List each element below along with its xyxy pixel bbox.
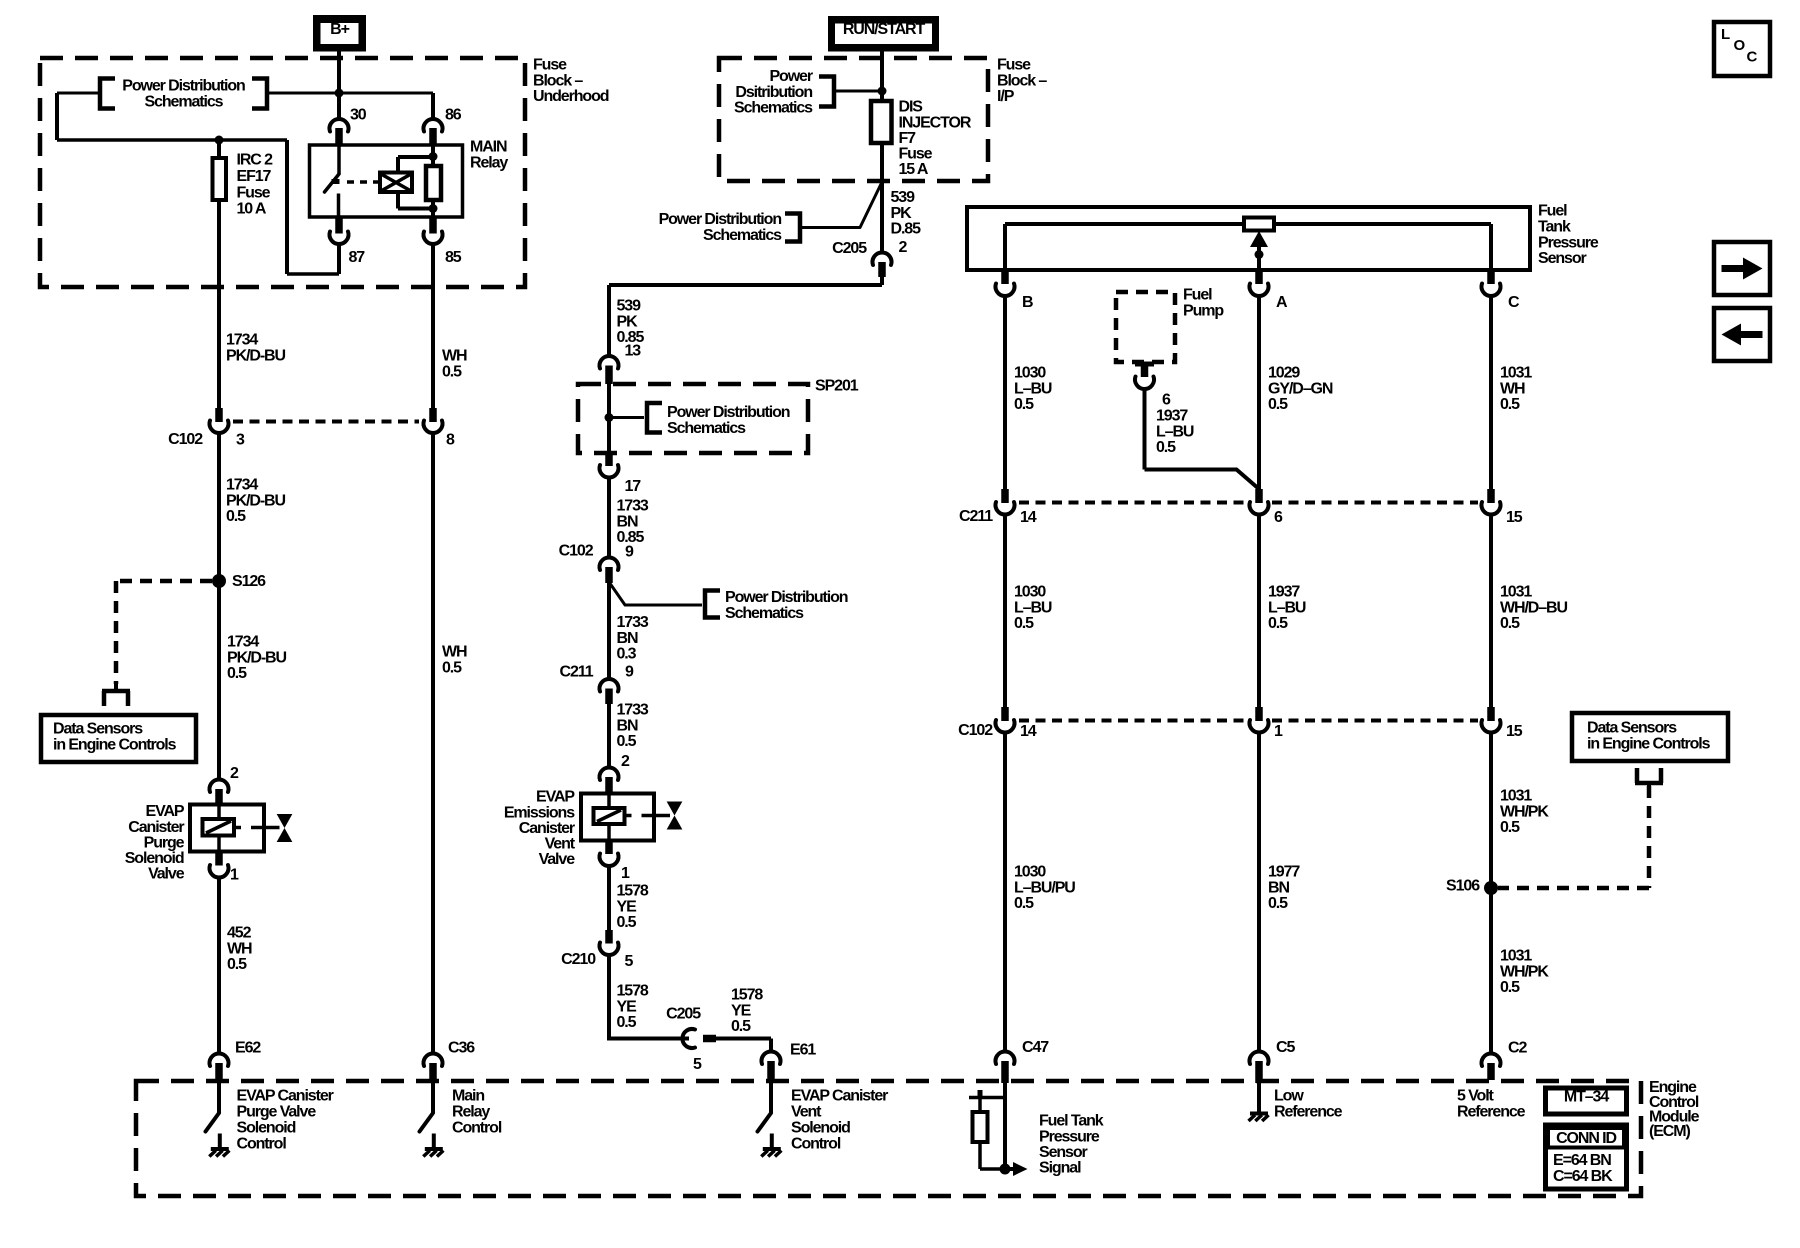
svg-text:1: 1 <box>621 865 630 882</box>
fuse DIS INJECTOR F7 15 A <box>871 101 892 143</box>
junction I/P feed <box>878 87 887 96</box>
reference Power Distribution Schematics (I/P lower) <box>659 184 881 244</box>
svg-text:Fuel: Fuel <box>1538 203 1567 220</box>
wire inside SP201 <box>607 384 611 452</box>
svg-text:Canister: Canister <box>519 820 575 837</box>
connector C2 <box>1482 1053 1501 1080</box>
svg-text:YE: YE <box>617 898 638 915</box>
svg-text:15 A: 15 A <box>899 161 929 178</box>
svg-text:Pressure: Pressure <box>1039 1128 1100 1145</box>
S126 link fork <box>114 682 118 691</box>
svg-text:Solenoid: Solenoid <box>791 1120 850 1137</box>
label 5 Volt Reference <box>1457 1088 1526 1121</box>
label WH 0.5 (main relay wire) <box>442 348 467 381</box>
svg-text:2: 2 <box>230 765 239 782</box>
label WH 0.5 (lower) <box>442 644 467 677</box>
svg-text:A: A <box>1276 294 1288 311</box>
label 1937 L-BU 0.5 (pump) <box>1156 408 1194 456</box>
svg-text:8: 8 <box>446 432 455 449</box>
svg-text:539: 539 <box>891 189 916 206</box>
svg-text:0.5: 0.5 <box>1014 895 1034 912</box>
relay coil <box>380 157 433 209</box>
junction signal node <box>1000 1164 1011 1175</box>
svg-text:10 A: 10 A <box>237 201 267 218</box>
svg-text:SP201: SP201 <box>815 378 859 395</box>
signal arrow <box>1005 1162 1028 1176</box>
C102 pin 3 connector <box>210 408 229 575</box>
vent valve pin 2 connector <box>600 767 619 793</box>
wire PDS left loop to fuse feed <box>57 93 287 140</box>
label 1030 L-BU/PU 0.5 (B lower) <box>1014 864 1075 912</box>
svg-text:Valve: Valve <box>539 851 576 868</box>
EVAP Canister Purge Solenoid Valve box <box>190 805 264 852</box>
valve pin 1 connector <box>210 852 229 1054</box>
svg-text:EVAP: EVAP <box>146 803 185 820</box>
purge valve coil <box>203 819 235 836</box>
connector C102 dashed row <box>233 420 419 424</box>
label EVAP Canister Purge Valve Solenoid Control <box>237 1088 334 1153</box>
svg-text:Schematics: Schematics <box>725 605 804 622</box>
C102 pin 1 connector <box>1250 707 1269 1053</box>
svg-text:2: 2 <box>899 239 908 256</box>
svg-text:Reference: Reference <box>1274 1104 1343 1121</box>
svg-text:5: 5 <box>693 1056 702 1073</box>
wire fuel pump to A leg <box>1145 470 1260 490</box>
svg-text:13: 13 <box>625 343 642 360</box>
svg-text:Fuse: Fuse <box>899 146 933 163</box>
label 1031 WH 0.5 (C upper) <box>1500 365 1532 413</box>
svg-text:Emissions: Emissions <box>504 804 575 821</box>
svg-text:1031: 1031 <box>1500 365 1532 382</box>
svg-text:E62: E62 <box>235 1040 261 1057</box>
svg-text:0.5: 0.5 <box>227 665 247 682</box>
svg-text:O: O <box>1734 37 1746 54</box>
ECM input resistor <box>973 1112 988 1142</box>
label 1734 PK/D-BU 0.5 (lower) <box>227 634 287 682</box>
svg-text:Fuse: Fuse <box>997 57 1031 74</box>
svg-text:WH: WH <box>227 940 252 957</box>
reference Power Distribution Schematics (below C102) <box>609 582 848 622</box>
svg-text:14: 14 <box>1020 509 1037 526</box>
svg-text:86: 86 <box>445 107 462 124</box>
svg-text:L–BU: L–BU <box>1156 423 1194 440</box>
svg-text:Fuel Tank: Fuel Tank <box>1039 1113 1104 1130</box>
fuel pump pin 6 connector <box>1135 364 1154 470</box>
svg-text:S106: S106 <box>1446 878 1480 895</box>
wire C205 to E61 <box>714 1039 771 1054</box>
svg-text:Power Distribution: Power Distribution <box>667 404 790 421</box>
sensor wiper arrow <box>1250 231 1268 270</box>
connector C102 (middle) <box>600 557 619 583</box>
svg-text:452: 452 <box>227 925 252 942</box>
purge valve link <box>234 826 280 830</box>
svg-text:C102: C102 <box>958 722 993 739</box>
svg-text:Block –: Block – <box>997 72 1047 89</box>
label 1578 YE 0.5 (right of C205) <box>731 987 763 1035</box>
svg-text:Fuel: Fuel <box>1183 287 1212 304</box>
svg-text:C205: C205 <box>666 1006 701 1023</box>
wire feed to relay pin 87 return <box>287 140 339 274</box>
svg-text:0.5: 0.5 <box>1014 396 1034 413</box>
svg-text:1: 1 <box>1274 723 1283 740</box>
svg-text:Signal: Signal <box>1039 1160 1081 1177</box>
svg-text:0.5: 0.5 <box>227 956 247 973</box>
svg-text:B: B <box>1022 294 1033 311</box>
svg-text:BN: BN <box>617 630 638 647</box>
svg-text:Control: Control <box>237 1136 287 1153</box>
svg-text:WH: WH <box>1500 380 1525 397</box>
svg-text:15: 15 <box>1506 509 1523 526</box>
label Low Reference <box>1274 1088 1343 1121</box>
connector C47 <box>996 1051 1015 1083</box>
svg-text:Control: Control <box>791 1136 841 1153</box>
pin 30 connector <box>330 93 349 145</box>
label 1031 WH/PK 0.5 (lower) <box>1500 948 1549 996</box>
vent valve symbol <box>668 802 682 815</box>
junction coil bottom <box>429 204 438 213</box>
svg-text:1733: 1733 <box>617 614 649 631</box>
wire C211 to vent valve <box>607 702 611 769</box>
svg-text:Data Sensors: Data Sensors <box>1587 720 1677 737</box>
fuse IRC 2 EF17 10 A <box>213 140 227 408</box>
svg-text:Underhood: Underhood <box>533 88 609 105</box>
svg-text:1937: 1937 <box>1156 408 1188 425</box>
svg-text:Valve: Valve <box>148 866 185 883</box>
connector C36 <box>424 1053 443 1083</box>
svg-text:0.5: 0.5 <box>617 914 637 931</box>
label Fuse Block - I/P <box>997 57 1047 105</box>
vent valve coil <box>594 808 625 824</box>
power symbol RUN/START <box>828 16 939 52</box>
label Fuel Tank Pressure Sensor <box>1538 203 1599 267</box>
wire B+ to junction <box>337 52 341 94</box>
svg-text:Dsitribution: Dsitribution <box>735 84 812 101</box>
junction coil top <box>429 152 438 161</box>
junction fuse feed <box>215 136 224 145</box>
fuse block - underhood dashed box <box>40 58 525 287</box>
C211 pin 14 connector <box>995 489 1014 707</box>
svg-text:Sensor: Sensor <box>1538 250 1587 267</box>
svg-text:0.5: 0.5 <box>1500 819 1520 836</box>
svg-text:(ECM): (ECM) <box>1649 1123 1690 1140</box>
fuel tank pressure sensor box <box>967 207 1530 270</box>
connector E62 <box>210 1053 229 1083</box>
label 1977 BN 0.5 (A lower) <box>1268 864 1300 912</box>
connector id table <box>1546 1125 1627 1189</box>
C211 pin 15 connector <box>1482 489 1501 707</box>
relay internal wire 86-85 <box>431 145 435 217</box>
svg-text:C: C <box>1508 294 1520 311</box>
connector C211 (middle) <box>600 679 619 704</box>
svg-text:Solenoid: Solenoid <box>237 1120 296 1137</box>
svg-text:1977: 1977 <box>1268 864 1300 881</box>
EVAP Emissions Canister Vent Valve box <box>581 794 654 841</box>
svg-text:MT–34: MT–34 <box>1564 1089 1609 1106</box>
svg-text:85: 85 <box>445 249 462 266</box>
svg-text:in Engine Controls: in Engine Controls <box>53 736 177 753</box>
connector E61 <box>762 1051 781 1083</box>
svg-text:C205: C205 <box>832 240 867 257</box>
svg-text:L–BU: L–BU <box>1268 599 1306 616</box>
label Engine Control Module (ECM) <box>1649 1079 1700 1140</box>
svg-text:0.5: 0.5 <box>1268 615 1288 632</box>
svg-text:C211: C211 <box>560 664 594 681</box>
svg-text:Power Distribution: Power Distribution <box>659 211 782 228</box>
wire C205 to SP201 leg <box>609 275 882 356</box>
wire junction to relay pin 86 corner <box>339 93 433 119</box>
svg-text:Vent: Vent <box>791 1104 822 1121</box>
S126 dashed reference link <box>116 581 212 684</box>
engine control module dashed box <box>136 1081 1641 1196</box>
C5 low reference ground <box>1249 1083 1269 1121</box>
svg-text:1578: 1578 <box>617 983 649 1000</box>
svg-text:Block –: Block – <box>533 72 583 89</box>
reference Power Distribution Schematics (SP201) <box>609 403 790 437</box>
svg-text:14: 14 <box>1020 723 1037 740</box>
svg-text:1733: 1733 <box>617 498 649 515</box>
svg-text:0.5: 0.5 <box>226 508 246 525</box>
pin 87 connector <box>330 217 349 274</box>
svg-text:0.5: 0.5 <box>442 363 462 380</box>
svg-text:PK/D-BU: PK/D-BU <box>226 347 286 364</box>
svg-text:1029: 1029 <box>1268 365 1300 382</box>
svg-text:L–BU: L–BU <box>1014 380 1052 397</box>
label Fuel Pump <box>1183 287 1224 320</box>
svg-text:Purge: Purge <box>144 834 185 851</box>
svg-text:Power: Power <box>769 68 812 85</box>
svg-text:C210: C210 <box>561 951 596 968</box>
connector C205 (I/P feed) <box>872 252 891 277</box>
svg-text:EVAP Canister: EVAP Canister <box>237 1088 334 1105</box>
svg-text:1734: 1734 <box>226 477 258 494</box>
navigation arrow left <box>1714 308 1770 361</box>
svg-text:0.5: 0.5 <box>731 1018 751 1035</box>
vent valve link <box>625 814 671 818</box>
svg-text:Schematics: Schematics <box>734 99 813 116</box>
label Fuel Tank Pressure Sensor Signal <box>1039 1113 1104 1177</box>
svg-text:0.5: 0.5 <box>1156 439 1176 456</box>
label 1030 L-BU 0.5 (B mid) <box>1014 584 1052 632</box>
svg-text:GY/D–GN: GY/D–GN <box>1268 380 1333 397</box>
svg-text:YE: YE <box>731 1002 752 1019</box>
splice S126 <box>212 574 226 780</box>
relay mechanical link dashed <box>347 180 380 184</box>
svg-text:1733: 1733 <box>617 702 649 719</box>
svg-text:Schematics: Schematics <box>667 420 746 437</box>
svg-text:0.5: 0.5 <box>617 733 637 750</box>
svg-text:0.5: 0.5 <box>617 1014 637 1031</box>
label 539 PK D.85 <box>891 189 922 237</box>
svg-text:9: 9 <box>625 664 634 681</box>
fuse block - I/P dashed box <box>719 58 988 181</box>
wire C102 to C211 (middle) <box>607 582 611 681</box>
svg-text:17: 17 <box>625 478 642 495</box>
label 1733 BN 0.3 <box>617 614 649 662</box>
svg-text:1578: 1578 <box>731 987 763 1004</box>
svg-text:Low: Low <box>1274 1088 1304 1105</box>
svg-text:Tank: Tank <box>1538 219 1571 236</box>
power symbol B+ <box>313 15 366 52</box>
C102 pin 14 connector <box>996 707 1015 1053</box>
svg-text:PK/D-BU: PK/D-BU <box>227 649 287 666</box>
svg-text:YE: YE <box>617 998 638 1015</box>
relay resistor <box>426 166 441 200</box>
label 452 WH 0.5 <box>227 925 252 973</box>
svg-text:Power Distribution: Power Distribution <box>725 589 848 606</box>
sensor pin B connector <box>995 270 1014 489</box>
label 1937 L-BU 0.5 (A mid) <box>1268 584 1306 632</box>
label 1030 L-BU 0.5 (B upper) <box>1014 365 1052 413</box>
svg-text:Solenoid: Solenoid <box>125 850 184 867</box>
svg-text:C102: C102 <box>168 431 203 448</box>
svg-text:1734: 1734 <box>226 332 258 349</box>
sensor internal resistive element <box>1005 224 1491 270</box>
svg-text:2: 2 <box>621 753 630 770</box>
svg-text:0.5: 0.5 <box>1268 396 1288 413</box>
label MAIN Relay <box>470 139 508 172</box>
label EVAP Canister Vent Solenoid Control <box>791 1088 888 1153</box>
splice S106 <box>1484 881 1498 895</box>
sensor pin C connector <box>1482 270 1501 489</box>
S106 link fork <box>1647 783 1651 788</box>
svg-text:1031: 1031 <box>1500 584 1532 601</box>
sensor pin A connector <box>1249 270 1268 489</box>
C102 pin 8 connector <box>424 408 443 1053</box>
valve pin 2 connector <box>210 779 229 805</box>
svg-text:INJECTOR: INJECTOR <box>899 114 972 131</box>
C102 pin 15 connector <box>1482 707 1501 1053</box>
connector C102 dashed row (right) <box>1019 719 1478 723</box>
svg-text:MAIN: MAIN <box>470 139 507 156</box>
navigation arrow right <box>1714 242 1770 295</box>
svg-text:L: L <box>1721 26 1730 43</box>
E61 driver switch and ground <box>769 1081 773 1113</box>
svg-text:in Engine Controls: in Engine Controls <box>1587 735 1711 752</box>
svg-text:L–BU: L–BU <box>1014 599 1052 616</box>
svg-text:WH/PK: WH/PK <box>1500 803 1549 820</box>
svg-text:IRC 2: IRC 2 <box>237 152 274 169</box>
svg-text:Main: Main <box>452 1088 484 1105</box>
svg-text:0.5: 0.5 <box>1014 615 1034 632</box>
svg-text:F7: F7 <box>899 130 917 147</box>
svg-text:9: 9 <box>625 544 634 561</box>
svg-text:1: 1 <box>230 867 239 884</box>
svg-text:87: 87 <box>349 249 366 266</box>
svg-text:1578: 1578 <box>617 883 649 900</box>
svg-text:Pressure: Pressure <box>1538 234 1599 251</box>
C211 pin 6 connector <box>1249 489 1268 707</box>
svg-text:D.85: D.85 <box>891 220 922 237</box>
relay MAIN Relay box <box>310 145 463 217</box>
label 1733 BN 0.5 <box>617 702 649 750</box>
svg-text:EVAP: EVAP <box>536 789 575 806</box>
reference Power Distribution Schematics (underhood) <box>100 78 267 111</box>
label 1733 BN 0.85 <box>617 498 649 546</box>
connector C5 <box>1250 1051 1269 1083</box>
fuel pump dashed box <box>1116 292 1175 362</box>
svg-text:Fuse: Fuse <box>533 57 567 74</box>
junction at B+ feed <box>335 89 344 98</box>
vent valve pin 1 connector <box>600 841 619 931</box>
svg-text:Relay: Relay <box>470 154 508 171</box>
svg-text:0.5: 0.5 <box>1268 895 1288 912</box>
svg-text:Control: Control <box>452 1120 502 1137</box>
svg-text:Schematics: Schematics <box>145 93 224 110</box>
svg-text:1734: 1734 <box>227 634 259 651</box>
svg-text:0.5: 0.5 <box>1500 615 1520 632</box>
label EVAP Emissions Canister Vent Valve <box>504 789 576 868</box>
svg-text:Schematics: Schematics <box>703 227 782 244</box>
svg-text:EF17: EF17 <box>237 168 272 185</box>
svg-text:5: 5 <box>625 953 634 970</box>
label 1734 PK/D-BU <box>226 332 286 365</box>
svg-text:Pump: Pump <box>1183 302 1224 319</box>
svg-text:C: C <box>1747 49 1758 66</box>
svg-text:L–BU/PU: L–BU/PU <box>1014 879 1075 896</box>
svg-text:Fuse: Fuse <box>237 184 271 201</box>
svg-text:WH: WH <box>442 644 467 661</box>
svg-text:6: 6 <box>1162 392 1171 409</box>
svg-text:C47: C47 <box>1022 1039 1049 1056</box>
svg-text:Sensor: Sensor <box>1039 1144 1088 1161</box>
svg-text:Reference: Reference <box>1457 1104 1526 1121</box>
svg-text:1031: 1031 <box>1500 948 1532 965</box>
wire RUN/START feed <box>880 52 884 253</box>
svg-text:BN: BN <box>1268 879 1289 896</box>
sensor wiper contact <box>1244 218 1274 231</box>
label IRC 2 EF17 Fuse 10 A <box>237 152 274 218</box>
junction SP201 <box>605 413 614 422</box>
svg-text:I/P: I/P <box>997 88 1015 105</box>
svg-text:Canister: Canister <box>128 819 184 836</box>
svg-text:C102: C102 <box>559 543 594 560</box>
svg-text:EVAP Canister: EVAP Canister <box>791 1088 888 1105</box>
svg-text:1937: 1937 <box>1268 584 1300 601</box>
svg-text:Relay: Relay <box>452 1104 490 1121</box>
pin 86 connector <box>424 119 443 145</box>
label 1031 WH/PK 0.5 (upper) <box>1500 788 1549 836</box>
connector C211 dashed row <box>1019 501 1478 505</box>
svg-text:WH/D–BU: WH/D–BU <box>1500 599 1568 616</box>
svg-text:15: 15 <box>1506 723 1523 740</box>
svg-text:C5: C5 <box>1276 1039 1295 1056</box>
svg-text:E=64 BN: E=64 BN <box>1553 1152 1611 1169</box>
reference Power Dsitribution Schematics (I/P) <box>734 68 882 116</box>
label DIS INJECTOR F7 Fuse 15 A <box>899 99 972 178</box>
svg-text:PK: PK <box>891 205 913 222</box>
svg-text:1031: 1031 <box>1500 788 1532 805</box>
svg-text:C36: C36 <box>448 1040 475 1057</box>
svg-text:30: 30 <box>350 107 367 124</box>
svg-text:1030: 1030 <box>1014 864 1046 881</box>
label 1578 YE 0.5 <box>617 883 649 931</box>
svg-text:BN: BN <box>617 717 638 734</box>
svg-text:RUN/START: RUN/START <box>843 21 926 38</box>
reference box Data Sensors in Engine Controls (right) <box>1572 713 1728 761</box>
S106 dashed reference link <box>1498 786 1649 888</box>
svg-text:E61: E61 <box>790 1042 816 1059</box>
svg-text:DIS: DIS <box>899 99 924 116</box>
svg-text:BN: BN <box>617 513 638 530</box>
C36 driver switch and ground <box>431 1081 435 1113</box>
svg-text:C211: C211 <box>959 508 993 525</box>
reference tag MT-34 <box>1546 1088 1627 1114</box>
C47 sensor signal input <box>969 1083 1005 1169</box>
svg-text:WH/PK: WH/PK <box>1500 963 1549 980</box>
connector C210 <box>600 930 619 1041</box>
label EVAP Canister Purge Solenoid Valve <box>125 803 185 882</box>
svg-text:5 Volt: 5 Volt <box>1457 1088 1495 1105</box>
